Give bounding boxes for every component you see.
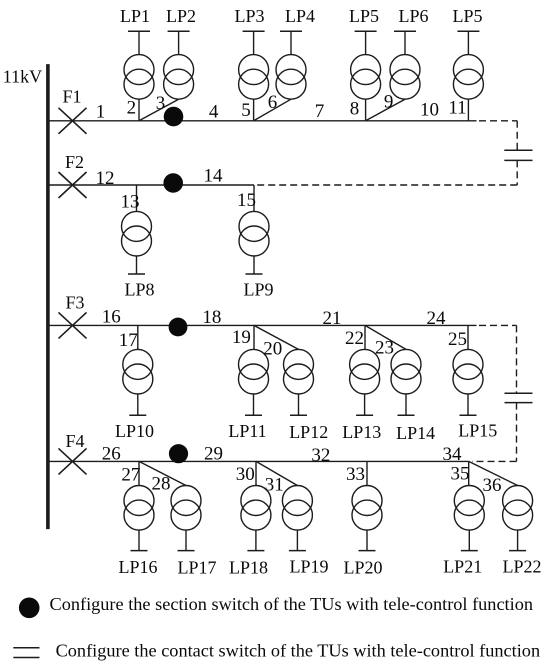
transformer TU (LP6) (390, 31, 420, 99)
svg-text:F1: F1 (62, 86, 81, 106)
svg-text:30: 30 (236, 464, 255, 485)
svg-text:6: 6 (268, 92, 278, 113)
transformer TU (LP4) (276, 31, 306, 99)
wire switch 20 (diagonal to LP12) (254, 325, 299, 349)
breaker F2 (59, 172, 87, 198)
transformer TU (LP10) (123, 349, 153, 415)
svg-text:11: 11 (448, 98, 466, 119)
transformer TU (LP3) (239, 31, 269, 99)
wire switch 25 (F3 to LP15) (467, 325, 469, 349)
wire dashed tie F3 right (479, 324, 517, 326)
wire switch 33 (F4 to LP20) (366, 461, 368, 485)
svg-text:LP3: LP3 (234, 6, 264, 26)
svg-text:11kV: 11kV (3, 67, 42, 87)
svg-text:16: 16 (102, 307, 121, 328)
svg-text:LP18: LP18 (229, 558, 268, 578)
wire switch 5 (junction to LP3) (253, 99, 255, 121)
legend: contact switch symbol (13, 648, 39, 658)
svg-text:2: 2 (127, 98, 137, 119)
svg-text:Configure the contact switch o: Configure the contact switch of the TUs … (56, 640, 540, 660)
contact switch F3-F4 (tele-control) (505, 393, 533, 402)
svg-text:13: 13 (121, 192, 140, 213)
svg-text:LP4: LP4 (285, 6, 315, 26)
11kV busbar (46, 64, 50, 529)
wire switch 11 (junction to LP5 end) (467, 99, 469, 121)
svg-text:22: 22 (345, 328, 364, 349)
svg-text:4: 4 (209, 101, 219, 122)
svg-text:15: 15 (237, 190, 256, 211)
wire switch 8 (junction to LP5) (365, 99, 367, 121)
wire switch 9 (diagonal to LP6) (366, 99, 405, 121)
svg-text:34: 34 (443, 444, 463, 465)
svg-text:7: 7 (315, 101, 325, 122)
svg-text:F3: F3 (65, 293, 84, 313)
transformer TU (LP8) (122, 211, 152, 274)
svg-text:LP14: LP14 (396, 423, 435, 443)
wire dashed tie F1 right (479, 120, 517, 122)
transformer TU (LP1) (124, 31, 154, 99)
svg-text:LP22: LP22 (502, 557, 541, 577)
svg-text:LP5: LP5 (452, 6, 482, 26)
svg-text:LP2: LP2 (166, 6, 196, 26)
transformer TU (LP19) (282, 486, 312, 551)
transformer TU (LP21) (454, 486, 484, 551)
svg-text:LP19: LP19 (289, 557, 328, 577)
transformer TU (LP11) (239, 349, 269, 415)
wire switch 28 (diagonal to LP17) (139, 461, 186, 485)
wire dashed tie down to contact switch F3-F4 (516, 325, 518, 393)
svg-text:1: 1 (96, 102, 106, 123)
section switch on F4 (tele-control) (169, 444, 188, 463)
svg-text:LP15: LP15 (458, 421, 497, 441)
wire switch 19 (F3 to LP11) (253, 325, 255, 349)
svg-text:32: 32 (311, 445, 330, 466)
svg-text:29: 29 (204, 444, 223, 465)
svg-text:26: 26 (102, 444, 121, 465)
svg-text:LP9: LP9 (243, 280, 273, 300)
wire switch 27 (F4 to LP16) (138, 461, 140, 485)
svg-text:23: 23 (375, 338, 394, 359)
svg-text:LP21: LP21 (443, 557, 482, 577)
svg-text:27: 27 (121, 465, 140, 486)
svg-text:19: 19 (232, 327, 251, 348)
wire feeder F4 trunk (48, 460, 469, 462)
svg-text:LP5: LP5 (349, 6, 379, 26)
wire switch 31 (diagonal to LP19) (256, 461, 297, 485)
wire switch 15 (F2 to LP9) (253, 185, 255, 211)
svg-text:25: 25 (448, 329, 467, 350)
transformer TU (LP22) (503, 486, 533, 551)
svg-text:31: 31 (265, 475, 284, 496)
wire switch 30 (F4 to LP18) (255, 461, 257, 485)
contact switch F1-F2 (tele-control) (504, 150, 532, 160)
svg-text:LP6: LP6 (398, 6, 428, 26)
breaker F4 (59, 448, 87, 474)
svg-text:18: 18 (202, 307, 221, 328)
svg-text:33: 33 (346, 464, 365, 485)
svg-text:LP20: LP20 (343, 558, 382, 578)
wire switch 2 (junction to LP1) (138, 99, 140, 121)
wire switch 17 (F3 to LP10) (137, 325, 139, 349)
section switch on F1 (tele-control) (164, 107, 184, 127)
svg-text:28: 28 (152, 474, 171, 495)
section switch on F2 (tele-control) (163, 173, 183, 193)
transformer TU (LP2) (164, 31, 194, 99)
svg-text:F2: F2 (65, 152, 84, 172)
wire dashed tie back to F2 (254, 184, 517, 186)
svg-text:36: 36 (483, 475, 502, 496)
breaker F1 (59, 108, 87, 134)
svg-text:35: 35 (451, 464, 470, 485)
svg-text:12: 12 (96, 168, 115, 189)
wire feeder F1 trunk (48, 120, 477, 122)
wire dashed from contact switch to F2 level (516, 160, 518, 185)
transformer TU (LP15) (453, 349, 483, 415)
transformer TU (LP9) (239, 211, 269, 274)
transformer TU (LP5 end) (453, 31, 483, 99)
svg-text:8: 8 (350, 99, 360, 120)
wire switch 35 (F4 to LP21) (468, 461, 470, 485)
transformer TU (LP14) (391, 349, 421, 415)
wire switch 23 (diagonal to LP14) (365, 325, 406, 349)
svg-text:14: 14 (204, 166, 224, 187)
svg-text:LP11: LP11 (228, 421, 266, 441)
svg-text:3: 3 (156, 93, 166, 114)
svg-text:5: 5 (241, 100, 251, 121)
wire feeder F2 trunk (48, 184, 254, 186)
svg-text:F4: F4 (65, 431, 84, 451)
wire feeder F3 trunk (48, 324, 477, 326)
svg-text:LP12: LP12 (289, 422, 328, 442)
wire switch 36 (diagonal to LP22) (469, 461, 518, 485)
svg-text:LP10: LP10 (115, 421, 154, 441)
svg-text:Configure the section switch o: Configure the section switch of the TUs … (50, 594, 534, 614)
wire switch 6 (diagonal to LP4) (254, 99, 291, 121)
svg-text:24: 24 (427, 308, 447, 329)
svg-text:LP17: LP17 (177, 557, 216, 577)
transformer TU (LP17) (171, 486, 201, 551)
svg-text:LP16: LP16 (118, 557, 157, 577)
svg-text:20: 20 (263, 339, 282, 360)
wire switch 13 (F2 to LP8) (136, 185, 138, 211)
transformer TU (LP13) (350, 349, 380, 415)
transformer TU (LP18) (241, 486, 271, 551)
breaker F3 (59, 312, 87, 338)
svg-text:21: 21 (323, 308, 342, 329)
section switch on F3 (tele-control) (169, 318, 188, 337)
wire dashed from contact switch to F4 level (516, 403, 518, 462)
wire switch 3 (diagonal to LP2) (139, 99, 179, 121)
svg-text:9: 9 (384, 91, 394, 112)
svg-text:10: 10 (420, 100, 439, 121)
transformer TU (LP12) (284, 349, 314, 415)
wire dashed tie down to contact switch (516, 121, 518, 151)
transformer TU (LP16) (124, 486, 154, 551)
wire switch 22 (F3 to LP13) (364, 325, 366, 349)
transformer TU (LP5) (351, 31, 381, 99)
transformer TU (LP20) (352, 486, 382, 551)
svg-text:LP13: LP13 (342, 422, 381, 442)
legend: section switch symbol (19, 598, 40, 619)
svg-text:LP8: LP8 (124, 280, 154, 300)
svg-text:LP1: LP1 (120, 6, 150, 26)
svg-text:17: 17 (119, 330, 138, 351)
wire dashed tie back to F4 (472, 460, 517, 462)
